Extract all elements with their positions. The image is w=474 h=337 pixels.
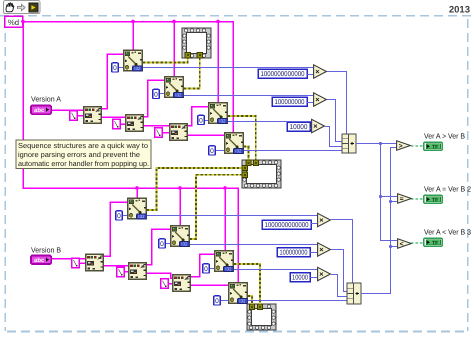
wire format branch SB2 <box>179 188 181 225</box>
wire VerB to equals <box>391 201 398 203</box>
wire format branch N1 <box>132 22 134 51</box>
boolean indicator TF1 <box>424 142 443 150</box>
wire MB1 to addB <box>331 220 353 284</box>
scan from string N2 <box>165 77 184 98</box>
multiply MB3 <box>318 267 331 280</box>
junction dots format trunk <box>21 20 227 190</box>
wire zero SB1 <box>123 215 127 217</box>
numeric constant 0 N3 <box>198 115 205 124</box>
scan from string SB1 <box>128 198 147 219</box>
wire SB1 out to MB1 <box>147 215 317 217</box>
string constant backslash-dot A3 <box>155 128 163 139</box>
wire VerB to less <box>391 246 398 248</box>
wire MP B3 before to SB3 <box>191 254 214 277</box>
svg-text:=: = <box>400 196 404 203</box>
match pattern MP A3 <box>170 124 188 141</box>
junction dots comparisons <box>379 142 392 248</box>
wire constA2 to M2 <box>307 102 313 104</box>
scan from string N3 <box>209 103 228 124</box>
numeric constant 10000 B <box>290 273 310 282</box>
snippet toolbar frame <box>4 1 41 14</box>
scan from string N4 <box>225 133 244 154</box>
error wire SB4 to FS2 <box>248 296 252 304</box>
error wire N2 to FS1 <box>184 58 200 89</box>
equals node <box>398 194 412 204</box>
wire MP A3 after to N4 <box>188 134 224 136</box>
wire SB4 out to addB <box>248 300 347 302</box>
wire MP A3 before to N3 <box>188 107 208 126</box>
numeric constant 100000000 B <box>277 248 310 257</box>
boolean indicator TF3 <box>424 238 443 246</box>
svg-text:10000: 10000 <box>290 124 308 131</box>
wire MP A1 after to MP A2 <box>102 116 125 118</box>
wire zero N4 <box>216 150 224 152</box>
svg-text:%d: %d <box>8 18 19 27</box>
wire zero SB2 <box>166 243 170 245</box>
boolean indicator TF2 <box>424 195 443 203</box>
wire MP A2 after to MP A3 <box>144 125 169 127</box>
wire M3 to addA <box>325 127 342 147</box>
wire MP B3 after to SB4 <box>191 284 228 286</box>
multiply M2 <box>314 93 327 106</box>
wire format branch SB3 <box>224 188 226 250</box>
error wire SB1 to FS3 <box>147 168 242 210</box>
string constant backslash-dot B3 <box>161 279 169 290</box>
scan from string SB4 <box>229 283 248 304</box>
match pattern MP A1 <box>84 107 102 124</box>
greater than node <box>397 141 411 151</box>
wire M2 to addA <box>327 100 342 142</box>
svg-text:<: < <box>400 241 404 248</box>
wire zero N2 <box>160 93 164 95</box>
string constant backslash-dot A2 <box>113 119 121 130</box>
wire VerA vertical <box>381 144 398 241</box>
string constant backslash-dot B2 <box>117 267 125 278</box>
toolbar hand icon <box>6 3 14 12</box>
svg-text:1000000000000: 1000000000000 <box>265 222 309 229</box>
wire format branch N3 <box>217 22 219 103</box>
svg-text:automatic error handler from p: automatic error handler from popping up. <box>18 159 149 168</box>
error wire SB3 to FS2 <box>234 264 260 304</box>
wire format trunk top <box>23 22 234 133</box>
wire SB2 out to MB2 <box>190 244 317 246</box>
scan from string N1 <box>124 50 143 71</box>
numeric constant 0 N2 <box>153 89 160 98</box>
wire MP B1 before to SB1 <box>104 202 127 256</box>
multiply M3 <box>312 119 325 132</box>
wire MP A1 before to N1 <box>102 54 123 109</box>
wire N2 out to M2 <box>184 95 313 97</box>
scan from string SB2 <box>171 226 190 247</box>
wire constB2 to MB2 <box>310 252 317 254</box>
toolbar arrow icon <box>18 4 26 10</box>
svg-text:100000000: 100000000 <box>280 249 308 256</box>
wire SB3 out to MB3 <box>234 269 317 271</box>
string constant %d <box>5 16 23 27</box>
wire slashB3 to MP B3 <box>169 283 172 285</box>
svg-text:100000000: 100000000 <box>275 99 305 106</box>
svg-text:Version A: Version A <box>31 95 61 104</box>
wire zero SB4 <box>221 300 228 302</box>
wire slashB1 to MP B1 <box>80 262 85 264</box>
numeric constant 10000 A <box>287 122 310 131</box>
wire slashA3 to MP A3 <box>163 132 169 134</box>
match pattern MP A2 <box>126 115 144 132</box>
toolbar run icon <box>29 3 38 12</box>
svg-text:Version B: Version B <box>31 246 61 255</box>
numeric constant 0 SB4 <box>214 296 221 305</box>
wire constA3 to M3 <box>310 128 311 130</box>
svg-text:Ver A < Ver B 3: Ver A < Ver B 3 <box>424 228 471 237</box>
svg-text:1000000000000: 1000000000000 <box>261 71 305 78</box>
numeric constant 0 N1 <box>112 63 119 72</box>
multiply MB2 <box>318 243 331 256</box>
comment box <box>16 140 151 169</box>
boolean wire less to TF3 <box>411 242 423 244</box>
wire MP A2 before to N2 <box>144 80 164 117</box>
wire format branch SB1 <box>136 188 138 198</box>
match pattern MP B2 <box>129 263 147 280</box>
numeric constant 100000000 A <box>272 97 307 106</box>
flat sequence FS2 <box>247 304 276 330</box>
label Ver A greater <box>424 132 465 141</box>
wire zero SB3 <box>210 268 214 270</box>
error wire SB2 to FS3 <box>190 175 242 239</box>
wire MB3 to addB <box>331 275 347 297</box>
svg-text:10000: 10000 <box>292 274 308 281</box>
flat sequence FS1 <box>182 28 211 58</box>
wire VerA to equals <box>381 196 398 198</box>
label Version A <box>31 95 61 104</box>
boolean wire equals to TF2 <box>411 198 423 200</box>
error wire N1 to FS1 <box>143 58 188 63</box>
numeric constant 0 N4 <box>209 146 216 155</box>
wire slashB2 to MP B2 <box>125 271 128 273</box>
wire format trunk bottom <box>23 22 238 283</box>
svg-text:>: > <box>399 143 403 150</box>
wire VersionA to MP A1 <box>52 109 83 111</box>
multiply M1 <box>314 65 327 78</box>
string constant backslash-dot B1 <box>72 258 80 269</box>
string constant backslash-dot A1 <box>70 111 78 122</box>
wire constB1 to MB1 <box>311 223 317 225</box>
wire zero N3 <box>205 120 208 122</box>
compound arithmetic addB <box>347 283 361 304</box>
numeric constant 1000000000000 A <box>258 69 307 78</box>
error wire N4 to FS3 <box>244 147 249 161</box>
wire N3 out to M3 <box>228 121 311 123</box>
wire N4 out to addA <box>244 150 342 152</box>
match pattern MP B3 <box>173 275 191 292</box>
scan from string SB3 <box>215 251 234 272</box>
svg-text:ignore parsing errors and prev: ignore parsing errors and prevent the <box>18 150 140 159</box>
wire N1 out to M1 <box>143 67 313 69</box>
wire addA out VerA <box>356 143 397 145</box>
numeric constant 0 SB1 <box>116 211 123 220</box>
wire MB2 to addB <box>331 250 347 292</box>
multiply MB1 <box>318 213 331 226</box>
wire VersionB to MP B1 <box>52 258 85 260</box>
wire MP B2 before to SB2 <box>147 229 170 265</box>
wire M1 to addA <box>327 72 347 135</box>
string control Version B <box>31 255 51 264</box>
wire format branch N2 <box>173 22 175 77</box>
wire constA1 to M1 <box>307 74 313 76</box>
wire addB out VerB vertical <box>361 148 397 294</box>
wire slashA1 to MP A1 <box>78 115 83 117</box>
wire MP B1 after to MP B2 <box>104 265 128 267</box>
wire MP B2 after to MP B3 <box>147 273 172 278</box>
match pattern MP B1 <box>86 254 104 271</box>
label Version B <box>31 246 61 255</box>
numeric constant 0 SB2 <box>159 239 166 248</box>
numeric constant 0 SB3 <box>203 264 210 273</box>
compound arithmetic addA <box>342 134 356 153</box>
snippet year 2013 <box>449 5 470 16</box>
numeric constant 1000000000000 B <box>262 220 311 229</box>
label Ver A less <box>424 228 471 237</box>
wire constB3 to MB3 <box>310 277 317 279</box>
svg-text:Sequence structures are a quic: Sequence structures are a quick way to <box>18 141 148 150</box>
label Ver A equals <box>424 185 471 194</box>
less than node <box>398 239 412 249</box>
error wire N3 to FS3 <box>228 116 256 160</box>
wire zero N1 <box>119 67 123 69</box>
boolean wire greater to TF1 <box>411 145 423 147</box>
svg-text:2013: 2013 <box>449 5 470 16</box>
wire slashA2 to MP A2 <box>121 123 125 125</box>
svg-text:Ver A = Ver B 2: Ver A = Ver B 2 <box>424 185 471 194</box>
flat sequence FS3 <box>242 160 281 188</box>
string control Version A <box>31 105 51 114</box>
svg-text:Ver A > Ver B: Ver A > Ver B <box>424 132 465 141</box>
